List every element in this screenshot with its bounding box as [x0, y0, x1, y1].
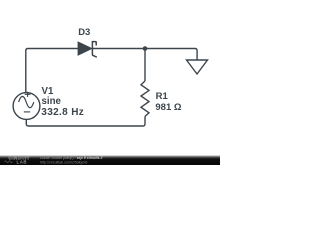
svg-text:332.8 Hz: 332.8 Hz: [41, 107, 84, 118]
svg-text:LAB: LAB: [17, 160, 28, 165]
diode D3 (schottky) triangle: [78, 42, 92, 55]
voltage source V1 plus sign: [25, 92, 31, 97]
svg-text:981 Ω: 981 Ω: [155, 102, 181, 113]
svg-text:http://circuitlab.com/c/5dkym6: http://circuitlab.com/c/5dkym6: [40, 160, 87, 164]
wire top-left segment: [26, 49, 78, 93]
svg-text:D3: D3: [78, 27, 90, 38]
resistor R1 zigzag: [141, 81, 149, 116]
wire resistor top stub: [144, 49, 146, 82]
footer CircuitLab logo: [5, 156, 30, 165]
svg-text:sine: sine: [42, 96, 62, 107]
node junction dot: [143, 46, 148, 51]
ground symbol: [187, 60, 208, 74]
voltage source V1 sine wave: [19, 96, 34, 107]
voltage source V1 circle: [13, 93, 40, 120]
svg-text:R1: R1: [156, 91, 169, 102]
wire bottom segment: [26, 116, 145, 126]
diode D3 cathode bar with hooks: [92, 42, 96, 57]
voltage source V1 minus sign: [24, 111, 30, 113]
wire top-right segment: [92, 49, 197, 61]
